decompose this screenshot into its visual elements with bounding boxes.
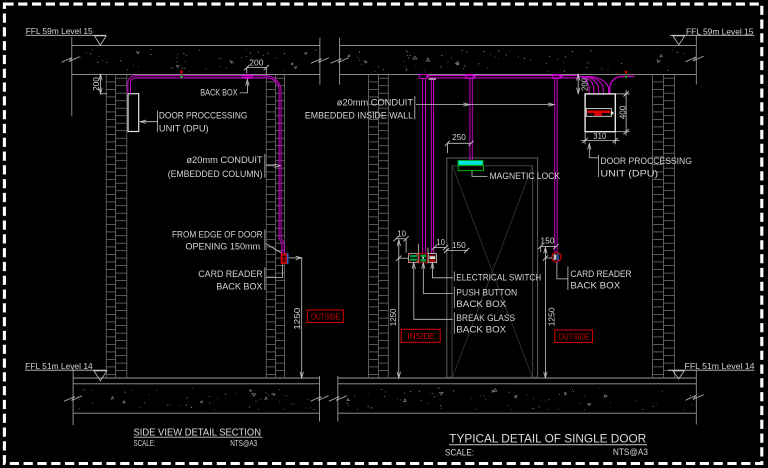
OUTSIDE tag (side view): [307, 310, 343, 323]
conduit from DPU up and across ceiling (side view): [128, 76, 284, 254]
ceiling slab right section: [340, 45, 697, 47]
label DOOR PROCCESSING UNIT (DPU) with leader (right): [588, 144, 591, 150]
floor finish line left section: [73, 377, 319, 379]
ceiling back box 1 with arrow: [419, 75, 427, 79]
svg-text:MAGNETIC LOCK: MAGNETIC LOCK: [490, 171, 561, 181]
door leaf diagonal 2: [453, 166, 533, 377]
horizontal ceiling conduit (double line): [429, 75, 580, 77]
card reader (side view): [281, 254, 287, 263]
leader to ELECTRICAL SWITCH: [431, 263, 434, 269]
svg-text:BACK BOX: BACK BOX: [570, 281, 620, 291]
svg-text:250: 250: [452, 132, 466, 142]
svg-text:FFL 59m Level 15: FFL 59m Level 15: [686, 26, 754, 36]
svg-text:BACK BOX: BACK BOX: [200, 87, 237, 97]
dimension 1250 (right drawing, inside): [399, 257, 409, 259]
vertical conduit pair d (to card reader): [554, 79, 556, 253]
door frame inner: [452, 166, 533, 378]
DPU box (single door): [585, 94, 615, 132]
svg-text:NTS@A3: NTS@A3: [613, 447, 648, 457]
svg-text:(EMBEDDED COLUMN): (EMBEDDED COLUMN): [168, 169, 263, 179]
svg-text:200: 200: [249, 58, 264, 68]
svg-text:ø20mm CONDUIT: ø20mm CONDUIT: [337, 98, 414, 108]
svg-text:FFL 59m Level 15: FFL 59m Level 15: [26, 26, 93, 36]
dimension 1250 (side view): [289, 257, 302, 259]
svg-text:1250: 1250: [388, 308, 398, 326]
dimension 310 (DPU width): [584, 132, 586, 145]
wall column L2 (side view right): [266, 74, 284, 378]
electrical switch box: [428, 253, 436, 262]
wall column L1 (side view left): [106, 74, 127, 378]
dimension 200 vertical (slab to DPU): [100, 74, 102, 93]
cad vertex marks at conduit end: [625, 71, 628, 75]
svg-text:FROM EDGE OF DOOR: FROM EDGE OF DOOR: [172, 230, 263, 240]
svg-text:DOOR PROCCESSING: DOOR PROCCESSING: [600, 156, 692, 166]
svg-text:400: 400: [618, 105, 628, 119]
OUTSIDE tag (right drawing): [555, 330, 593, 343]
dimension 200 horizontal (back box to wall): [247, 67, 266, 69]
label DOOR PROCCESSING UNIT (DPU) with leader: [157, 111, 159, 132]
cad vertex marks (red arrow + green dot): [180, 71, 183, 76]
svg-text:10: 10: [397, 229, 406, 239]
svg-text:150: 150: [452, 240, 466, 250]
leader to CARD READER BACK BOX (right): [557, 262, 568, 279]
INSIDE tag: [401, 329, 440, 342]
break glass box: [409, 253, 419, 262]
conduit hook to right of DPU: [610, 76, 635, 94]
floor slab right section: [338, 383, 697, 385]
ceiling back box 3 with arrow: [553, 75, 561, 79]
vertical conduit pair a (to push button): [422, 79, 424, 254]
dimension 250 (magnetic lock offset): [447, 142, 471, 144]
magnetic lock: [458, 160, 483, 165]
svg-text:FFL 51m Level 14: FFL 51m Level 14: [25, 361, 93, 371]
svg-text:PUSH BUTTON: PUSH BUTTON: [456, 287, 517, 297]
svg-text:NTS@A3: NTS@A3: [230, 439, 257, 448]
svg-text:FFL 51m Level 14: FFL 51m Level 14: [685, 361, 755, 371]
svg-text:INSIDE: INSIDE: [407, 332, 435, 341]
vertical conduit pair c (to magnetic lock): [469, 79, 471, 161]
label MAGNETIC LOCK with leader: [472, 171, 488, 177]
dimension 400 (DPU height): [615, 93, 629, 95]
svg-text:BACK BOX: BACK BOX: [216, 281, 262, 291]
svg-text:200: 200: [91, 77, 101, 91]
door frame outer: [447, 158, 538, 377]
svg-text:SIDE VIEW DETAIL SECTION: SIDE VIEW DETAIL SECTION: [134, 427, 262, 438]
svg-text:DOOR PROCCESSING: DOOR PROCCESSING: [159, 111, 247, 121]
DPU box (side view): [128, 94, 139, 132]
svg-text:200: 200: [579, 78, 589, 91]
leader to PUSH BUTTON BACK BOX: [422, 263, 425, 269]
svg-text:BACK BOX: BACK BOX: [456, 325, 506, 335]
svg-text:UNIT (DPU): UNIT (DPU): [600, 169, 658, 179]
floor break symbols: [64, 396, 82, 402]
svg-text:1250: 1250: [292, 307, 302, 329]
svg-text:SCALE:: SCALE:: [134, 439, 156, 448]
white cap on conduit b: [429, 78, 436, 80]
svg-text:OUTSIDE: OUTSIDE: [558, 333, 590, 342]
svg-text:ø20mm CONDUIT: ø20mm CONDUIT: [186, 155, 263, 165]
door leaf diagonal 1: [453, 166, 533, 377]
svg-text:OPENING 150mm: OPENING 150mm: [185, 242, 260, 252]
dimension 1250 (right drawing, outside): [545, 257, 552, 259]
svg-text:TYPICAL DETAIL OF SINGLE DOOR: TYPICAL DETAIL OF SINGLE DOOR: [449, 431, 646, 445]
wall column R (plan right jamb): [653, 74, 675, 378]
wall column M (plan left jamb): [369, 74, 389, 378]
svg-text:BREAK GLASS: BREAK GLASS: [456, 313, 515, 323]
push button box: [419, 253, 427, 262]
leader to BREAK GLASS BACK BOX: [412, 263, 415, 269]
dimension 200 (right, slab to DPU): [577, 75, 579, 94]
card reader (single door): [552, 253, 561, 262]
svg-text:EMBEDDED INSIDE WALL: EMBEDDED INSIDE WALL: [305, 111, 413, 121]
ceiling slab left section: [72, 45, 320, 47]
svg-text:10: 10: [436, 237, 445, 247]
svg-text:UNIT (DPU): UNIT (DPU): [159, 124, 209, 134]
svg-text:SCALE:: SCALE:: [445, 447, 474, 457]
svg-text:ELECTRICAL SWITCH: ELECTRICAL SWITCH: [456, 272, 541, 282]
floor slab break lines: [319, 376, 321, 422]
svg-text:310: 310: [593, 131, 606, 141]
svg-text:1250: 1250: [547, 307, 557, 326]
svg-text:BACK BOX: BACK BOX: [456, 299, 506, 309]
svg-text:OUTSIDE: OUTSIDE: [311, 313, 341, 322]
ceiling back box 2 with arrow: [466, 75, 474, 79]
ceiling slab break lines: [319, 38, 321, 85]
floor slab left section: [73, 383, 319, 385]
conduit dimension line across wall: [416, 104, 554, 106]
conduit fan into DPU: [578, 76, 589, 94]
vertical conduit pair b (to electrical switch): [430, 80, 432, 254]
svg-text:CARD READER: CARD READER: [570, 269, 632, 279]
svg-text:CARD READER: CARD READER: [198, 269, 263, 279]
DPU reader module: [586, 109, 611, 117]
floor finish line right section: [338, 377, 697, 379]
ceiling break symbols: [62, 57, 80, 63]
back box oval on ceiling conduit: [242, 74, 253, 79]
